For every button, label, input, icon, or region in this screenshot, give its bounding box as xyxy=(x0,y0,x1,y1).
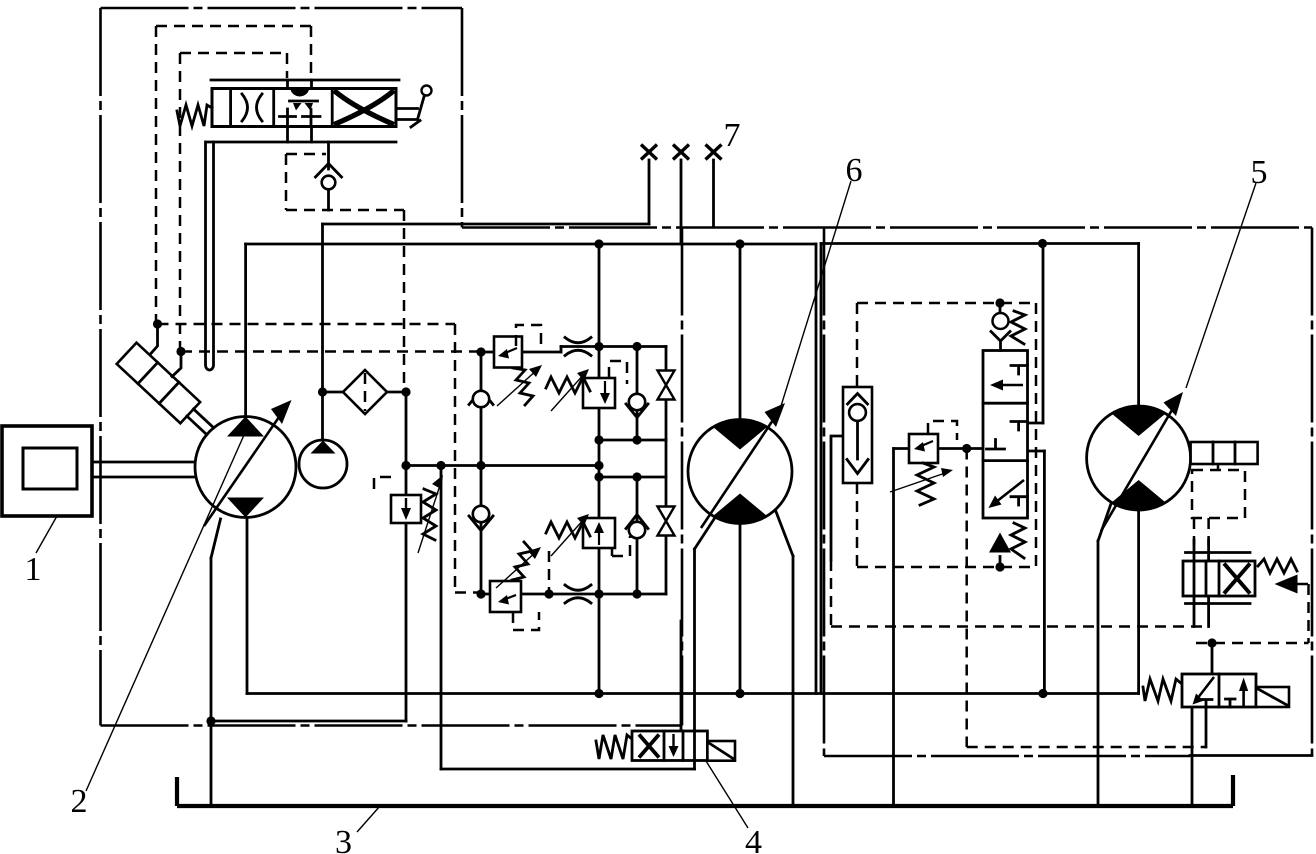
wire: test port stem X1 xyxy=(648,160,651,224)
pilot line: down to filter junction xyxy=(403,210,406,392)
wire: filter line xyxy=(323,391,407,394)
pilot valve PV bottom stem xyxy=(999,557,1002,568)
filter F1 diamond xyxy=(343,370,387,414)
charge relief valve RV0 dashed corner xyxy=(374,477,391,496)
enclosure right: bottom right corner piece xyxy=(1190,754,1312,757)
node: drain manifold xyxy=(206,716,215,725)
enclosure right: right border xyxy=(1311,228,1314,756)
wire: block right column xyxy=(665,347,668,595)
node: center column A-line xyxy=(594,239,603,248)
motor M5 variable arrow xyxy=(1101,398,1179,531)
node: relief4 sense xyxy=(544,589,553,598)
check valve CV3 seat xyxy=(626,404,648,418)
pilot valve PV top box T xyxy=(1011,366,1028,375)
node: center mid xyxy=(594,461,603,470)
pilot operated valve PV dividers xyxy=(983,403,1028,460)
relief valve RV2 pilot box xyxy=(609,361,627,384)
svg-text:7: 7 xyxy=(724,117,741,154)
valve4 down arrow xyxy=(672,734,674,750)
node: center bus xyxy=(594,689,603,698)
relief valve RV2 body xyxy=(583,378,615,408)
node: servo pilot2 xyxy=(176,347,185,356)
shuttle valve seat xyxy=(848,394,868,405)
hand valve HV spring xyxy=(177,105,212,126)
charge relief valve RV0 spring xyxy=(423,489,436,540)
relief valve RV5 pilot box xyxy=(928,421,957,440)
node: pilot check top xyxy=(995,298,1004,307)
wire: pump A-line right section to motor5 xyxy=(821,242,1139,245)
pump P2 top triangle xyxy=(227,417,264,437)
wire: charge feed column xyxy=(440,466,443,769)
check valve CV1 ball xyxy=(473,391,489,407)
wire: A-line drop left of boundary xyxy=(815,244,818,694)
pilot line: hand valve right port loop inner xyxy=(180,53,287,352)
pilot valve PV mid box Ts xyxy=(987,422,1028,450)
valve A left box bars xyxy=(1194,561,1206,596)
wire: valve B right drop to pilot line xyxy=(1205,707,1208,747)
node: check col top rail xyxy=(632,342,641,351)
hand valve HV outlet line xyxy=(206,141,396,144)
wire: test port stem X3 xyxy=(712,160,715,226)
valve4 spring xyxy=(596,735,632,759)
node: motor6 top xyxy=(735,239,744,248)
node: right column top xyxy=(1038,239,1047,248)
pilot line: motor5 servo box xyxy=(1217,464,1220,470)
enclosure top chain line across xyxy=(462,226,1312,229)
pilot valve PV bottom box T xyxy=(1011,497,1028,505)
charge relief valve RV0 adjust arrow xyxy=(418,479,442,553)
relief valve RV5 spring xyxy=(917,463,934,505)
svg-text:4: 4 xyxy=(745,824,762,854)
charge relief valve RV0 arrow xyxy=(405,498,407,514)
motor M5 top triangle xyxy=(1112,406,1166,436)
leader line 6 xyxy=(781,181,851,406)
valve B solenoid box xyxy=(1256,687,1289,707)
wire: block bottom rail xyxy=(481,593,666,596)
relief valve RV4 pilot box xyxy=(612,536,630,556)
valve B right box arrow xyxy=(1242,687,1245,706)
relief valve RV2 arrow xyxy=(604,381,606,398)
enclosure left: left border xyxy=(99,8,102,726)
pilot valve PV bottom spring xyxy=(1011,523,1025,558)
hand valve HV position1 orifice xyxy=(242,94,262,121)
check valve CV-TL seat xyxy=(316,164,342,178)
enclosure left: bottom border xyxy=(101,724,683,727)
relief valve RV1 adjust arrow xyxy=(497,369,538,406)
valve A divider xyxy=(1218,561,1221,596)
relief valve RV2 adjust arrow xyxy=(551,373,585,411)
enclosure left: right border xyxy=(681,228,684,726)
relief valve RV3 spring xyxy=(512,542,532,580)
wire: valve A bottom stubs xyxy=(1186,596,1251,627)
engine E1 (label 1) outer box xyxy=(2,426,92,516)
test port X2 xyxy=(673,145,689,160)
valve B divider xyxy=(1218,674,1221,707)
pilot line: hand valve left port loop top xyxy=(156,26,311,324)
pilot line: servo box to valve A xyxy=(1194,518,1209,545)
servo piston rod to pump xyxy=(187,409,214,435)
relief valve RV3 pilot box xyxy=(513,612,539,630)
relief valve RV2 spring xyxy=(546,377,590,393)
pump P2 variable arrow xyxy=(204,404,288,526)
pilot line: block dashed L border xyxy=(455,324,479,593)
leader line 5 xyxy=(1186,183,1256,388)
relief valve RV1 pilot box xyxy=(516,325,541,346)
node: check col lower top xyxy=(632,472,641,481)
node: valve B pilot xyxy=(1207,638,1216,647)
hand valve HV position3 X xyxy=(334,91,394,125)
test port X3 xyxy=(706,145,722,160)
motor M5 servo block xyxy=(1191,442,1258,464)
wire: pump top port riser xyxy=(244,244,247,417)
valve A right box X xyxy=(1224,564,1250,594)
leader line 4 xyxy=(706,761,748,828)
valve A spring xyxy=(1258,559,1297,573)
svg-text:1: 1 xyxy=(25,551,42,588)
wire: relief1 line xyxy=(481,351,561,354)
pilot line: relief sense down and right to valve B xyxy=(967,449,1206,748)
wire: valve B top stem xyxy=(1211,643,1214,674)
motor M6 bottom triangle xyxy=(713,494,767,524)
relief valve RV4 arrow xyxy=(598,528,600,545)
leader line 2 xyxy=(86,426,248,791)
pilot valve PV top check seat xyxy=(991,332,1010,351)
node: check col upper bottom xyxy=(632,435,641,444)
enclosure right: left border xyxy=(823,228,826,757)
wire: block lower sub top rail xyxy=(599,476,666,479)
node: charge mid feed xyxy=(436,461,445,470)
check valve CV2 ball xyxy=(473,506,489,522)
wire: relief right connections xyxy=(894,447,984,450)
relief valve RV5 body xyxy=(909,434,938,463)
node: center upper bottom rail xyxy=(594,435,603,444)
hand valve HV supply double pipe xyxy=(206,142,214,370)
pilot box: right circuit dashed frame xyxy=(857,303,1036,567)
wire: charge pump suction riser xyxy=(321,224,324,440)
check valve CV-TL stem top xyxy=(327,142,330,169)
hand valve HV position2 bar with arrows xyxy=(290,100,318,103)
check valve CV4 seat xyxy=(626,515,648,529)
node: center top rail xyxy=(594,342,603,351)
pilot box: motor5 servo dashed box xyxy=(1192,470,1245,518)
wire: motor5 top port riser xyxy=(1137,244,1140,407)
check valve CV1 seat xyxy=(469,390,493,405)
motor M5 bottom triangle xyxy=(1112,480,1166,510)
node: relief sense tap xyxy=(962,444,971,453)
check valve CV-TL ball xyxy=(322,176,336,190)
servo pilot link upper xyxy=(150,324,158,355)
svg-text:3: 3 xyxy=(335,824,352,854)
wire: pilot valve tap to right column xyxy=(1026,423,1044,451)
wire: pump bottom port drop xyxy=(246,518,249,694)
leader line 3 xyxy=(357,806,380,832)
wire: motor5 drain slant to tank xyxy=(1098,498,1113,806)
node: pilot bottom xyxy=(995,562,1004,571)
shutoff valve SV1 bowtie xyxy=(658,371,675,400)
wire: block check column lower xyxy=(636,477,639,594)
node: center lower top rail xyxy=(594,472,603,481)
pilot valve PV bottom box arrow xyxy=(996,480,1024,502)
pump P2 bottom triangle xyxy=(227,498,264,518)
hand valve HV bottom stubs xyxy=(288,127,312,143)
valve B body xyxy=(1182,674,1256,707)
wire: motor6 bottom drain to bus xyxy=(739,524,742,694)
check valve CV-TL stem bottom xyxy=(327,190,330,211)
wire: motor5 bottom port drop xyxy=(1137,510,1140,694)
wire: pump case drain slant xyxy=(211,519,221,806)
hand valve HV body xyxy=(212,89,396,127)
relief valve RV3 adjust arrow xyxy=(496,551,537,588)
svg-text:6: 6 xyxy=(846,152,863,189)
wire: test port stem X2 down to valve 4 xyxy=(680,160,683,731)
valve4 dividers xyxy=(664,731,695,761)
wire: valve B left drop to tank xyxy=(1191,707,1194,806)
wire: motor6 lower-left line to valve 4 xyxy=(695,516,717,769)
wire: A-line drop right of boundary xyxy=(820,244,823,694)
valve B left box arrow xyxy=(1197,677,1214,699)
charge relief valve RV0 body xyxy=(391,495,421,523)
motor M5 circle xyxy=(1087,406,1191,510)
wire: relief1 outlet corner xyxy=(560,347,563,353)
relief valve RV5 adjust arrow xyxy=(890,472,948,492)
wire: motor6 lower-right line to tank xyxy=(775,509,793,806)
orifice O2 arcs xyxy=(565,585,591,603)
orifice O1 arcs xyxy=(565,338,591,356)
charge pump P2a triangle xyxy=(311,441,336,454)
hand valve HV dividers xyxy=(231,89,333,127)
wire: block center column xyxy=(598,244,601,694)
node: filter left xyxy=(318,387,327,396)
relief valve RV1 body xyxy=(494,337,522,368)
relief valve RV4 spring xyxy=(546,522,590,538)
pilot line: servo lower to block xyxy=(181,350,481,353)
valve4 body xyxy=(632,731,707,761)
relief valve RV3 arrow xyxy=(503,595,516,600)
pilot line: valve A spring side to valve B top xyxy=(1196,584,1309,643)
test port X1 xyxy=(641,145,657,160)
motor M6 variable arrow xyxy=(701,408,781,528)
relief valve RV1 arrow xyxy=(503,348,517,354)
hand valve HV lever xyxy=(396,95,425,120)
svg-text:2: 2 xyxy=(71,783,88,820)
hand valve HV top stubs xyxy=(288,80,312,89)
pilot line: relief4 spring sense xyxy=(548,551,551,592)
wire: right column from A-line to bus xyxy=(1043,244,1044,694)
tank T3 outline xyxy=(177,775,1233,806)
pilot valve PV bottom pilot triangle xyxy=(989,533,1011,553)
pilot line: servo upper to block xyxy=(158,323,456,326)
wire: valve4 outlet return xyxy=(441,768,695,771)
wire: shuttle rect left stub xyxy=(831,436,843,560)
relief valve RV3 body xyxy=(490,581,521,612)
node: center bottom rail xyxy=(594,589,603,598)
enclosure left: top border xyxy=(101,7,463,10)
wire: charge suction horizontal xyxy=(323,223,650,226)
motor M6 top triangle xyxy=(713,419,767,449)
hand valve HV position2 dome xyxy=(291,89,310,96)
relief valve RV4 body xyxy=(583,518,615,548)
enclosure right: bottom border xyxy=(824,755,1190,758)
valve B spring xyxy=(1143,679,1182,701)
node: right column bus xyxy=(1038,689,1047,698)
pilot valve PV top box arrow xyxy=(999,384,1023,387)
node: block left top xyxy=(476,347,485,356)
node: motor6 drain bus xyxy=(735,689,744,698)
wire: block check column upper xyxy=(636,347,639,441)
leader line 1 xyxy=(36,516,57,553)
wire: block upper sub bottom rail xyxy=(599,439,666,442)
node: check col bottom xyxy=(632,589,641,598)
relief valve RV1 spring xyxy=(513,368,533,405)
pilot valve PV top check stem xyxy=(999,303,1002,313)
shuttle valve flow arrow xyxy=(847,421,868,474)
hand valve HV position2 blocked ports xyxy=(280,109,321,125)
pilot valve PV top check ball xyxy=(993,313,1009,329)
pump P2 main variable pump circle xyxy=(195,417,296,518)
hand valve HV top bridge line xyxy=(211,79,399,82)
check valve CV3 ball xyxy=(629,394,645,410)
enclosure left: step vertical xyxy=(461,8,464,228)
pilot operated valve PV body xyxy=(983,351,1028,519)
servo cylinder on pump swashplate xyxy=(117,343,200,424)
engine E1 inner box xyxy=(23,448,77,489)
node: filter right xyxy=(401,387,410,396)
wire: low pressure bus xyxy=(247,692,1139,695)
relief valve RV4 adjust arrow xyxy=(551,518,585,556)
pump P2 variable arrow head xyxy=(271,400,292,424)
node: block left mid xyxy=(476,461,485,470)
pilot line: check valve box around TL check xyxy=(286,154,404,210)
shutoff valve SV2 bowtie xyxy=(658,507,675,536)
wire: drain manifold xyxy=(211,720,406,723)
check valve CV2 seat xyxy=(469,516,493,531)
wire: block left column xyxy=(480,352,483,594)
shuttle valve ball xyxy=(849,404,866,421)
wire: relief drain to tank right xyxy=(892,449,895,807)
shuttle/flushing valve body xyxy=(843,387,872,483)
node: block left bottom xyxy=(476,589,485,598)
wire: charge mid bus xyxy=(406,464,599,467)
wire: pump A-line horizontal left xyxy=(246,243,816,246)
relief valve RV5 arrow xyxy=(919,441,933,447)
check valve CV4 ball xyxy=(629,522,645,538)
wire: engine shaft xyxy=(92,462,196,477)
servo pilot link lower xyxy=(172,352,181,377)
charge pump P2a circle xyxy=(299,440,347,488)
pilot line: shuttle to valve A bottom xyxy=(831,560,1206,627)
node: charge mid left xyxy=(401,461,410,470)
node: servo pilot1 xyxy=(153,319,162,328)
valve4 solenoid box xyxy=(707,741,735,761)
pilot valve PV top spring xyxy=(1011,311,1025,344)
motor M6 circle xyxy=(688,420,792,524)
wire: motor6 top port riser xyxy=(739,244,742,420)
valve4 X symbol xyxy=(639,735,659,758)
valve A pilot triangle xyxy=(1275,575,1298,594)
wire: charge line vertical filter to relief xyxy=(405,392,408,721)
filter F1 element xyxy=(364,373,367,411)
wire: block top rail xyxy=(561,345,666,348)
valve A body xyxy=(1183,561,1255,596)
wire: valve A top stubs xyxy=(1186,540,1251,561)
svg-text:5: 5 xyxy=(1251,154,1268,191)
